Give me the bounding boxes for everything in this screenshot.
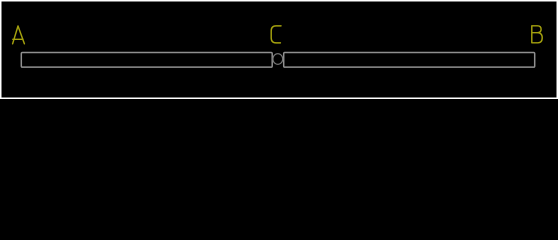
- bar CB (right beam rectangle): [284, 52, 535, 67]
- label B: [532, 26, 542, 43]
- bar AC (left beam rectangle): [21, 52, 272, 67]
- frame border: [1, 1, 558, 99]
- label C: [271, 26, 281, 43]
- pin circle at C: [273, 54, 283, 65]
- label A: [13, 26, 25, 44]
